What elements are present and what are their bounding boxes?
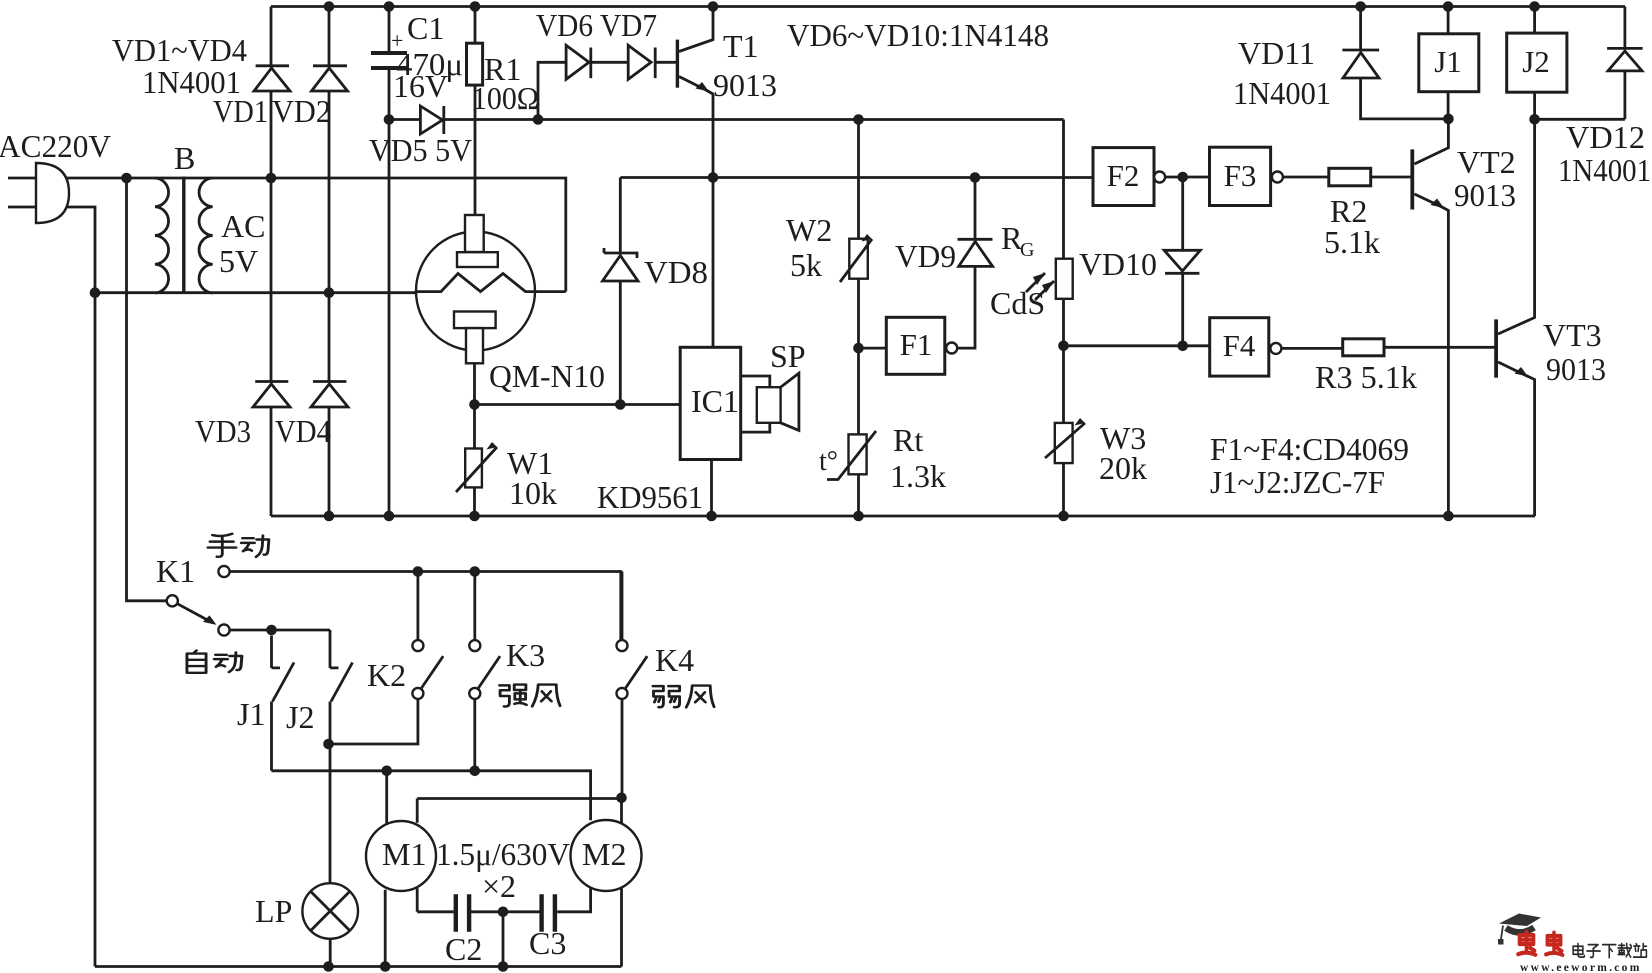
svg-text:J1: J1 <box>237 696 265 732</box>
svg-text:AC220V: AC220V <box>0 128 111 164</box>
svg-text:×2: ×2 <box>482 868 516 904</box>
svg-text:K1: K1 <box>156 553 195 589</box>
svg-text:C2: C2 <box>445 931 482 967</box>
svg-text:9013: 9013 <box>713 67 777 103</box>
svg-text:VD5 5V: VD5 5V <box>369 132 472 168</box>
svg-text:VD9: VD9 <box>895 238 956 274</box>
svg-text:VD6~VD10:1N4148: VD6~VD10:1N4148 <box>787 17 1049 53</box>
svg-text:J2: J2 <box>286 699 314 735</box>
svg-text:J1~J2:JZC-7F: J1~J2:JZC-7F <box>1210 464 1385 500</box>
svg-text:VD1~VD4: VD1~VD4 <box>112 32 247 68</box>
svg-text:www.eeworm.com: www.eeworm.com <box>1520 962 1642 973</box>
svg-text:F1: F1 <box>900 327 933 362</box>
svg-text:C1: C1 <box>407 10 444 46</box>
svg-text:5V: 5V <box>219 243 258 279</box>
svg-text:K3: K3 <box>506 637 545 673</box>
svg-text:F3: F3 <box>1224 158 1257 193</box>
svg-text:t°: t° <box>819 446 838 477</box>
svg-text:M1: M1 <box>382 836 426 872</box>
svg-text:VD11: VD11 <box>1238 35 1315 71</box>
svg-text:5k: 5k <box>790 247 822 283</box>
svg-text:G: G <box>1020 239 1034 261</box>
svg-text:SP: SP <box>770 338 806 374</box>
svg-text:J1: J1 <box>1434 44 1462 79</box>
svg-text:VD2: VD2 <box>272 93 331 129</box>
svg-text:J2: J2 <box>1522 44 1550 79</box>
svg-text:R3 5.1k: R3 5.1k <box>1315 359 1417 395</box>
svg-text:K2: K2 <box>367 657 406 693</box>
svg-text:VT2: VT2 <box>1457 144 1516 180</box>
svg-text:Rt: Rt <box>893 422 923 458</box>
svg-text:KD9561: KD9561 <box>597 479 703 515</box>
svg-text:VD4: VD4 <box>275 413 331 449</box>
svg-text:IC1: IC1 <box>691 383 739 419</box>
svg-text:16V: 16V <box>393 68 448 104</box>
svg-text:VD6: VD6 <box>536 7 593 43</box>
svg-text:100Ω: 100Ω <box>472 80 539 116</box>
svg-text:F4: F4 <box>1223 328 1256 363</box>
svg-text:1.5μ/630V: 1.5μ/630V <box>436 836 570 872</box>
svg-text:F2: F2 <box>1107 158 1140 193</box>
svg-text:1N4001: 1N4001 <box>1558 152 1651 188</box>
svg-text:VT3: VT3 <box>1543 317 1602 353</box>
svg-text:VD12: VD12 <box>1566 119 1645 155</box>
svg-text:QM-N10: QM-N10 <box>489 358 605 394</box>
svg-text:20k: 20k <box>1099 450 1147 486</box>
svg-text:AC: AC <box>221 208 265 244</box>
svg-text:VD1: VD1 <box>213 93 268 129</box>
svg-text:B: B <box>174 140 195 176</box>
svg-text:1N4001: 1N4001 <box>1233 75 1331 111</box>
svg-text:CdS: CdS <box>990 285 1045 321</box>
svg-text:9013: 9013 <box>1454 177 1516 213</box>
svg-text:9013: 9013 <box>1546 351 1606 387</box>
svg-text:F1~F4:CD4069: F1~F4:CD4069 <box>1210 431 1409 467</box>
svg-text:M2: M2 <box>582 836 626 872</box>
svg-text:T1: T1 <box>723 28 759 64</box>
svg-text:C3: C3 <box>529 925 566 961</box>
svg-text:VD10: VD10 <box>1079 246 1157 282</box>
svg-text:W2: W2 <box>786 212 832 248</box>
svg-text:K4: K4 <box>655 642 694 678</box>
svg-text:VD8: VD8 <box>644 254 708 290</box>
svg-text:1.3k: 1.3k <box>890 458 946 494</box>
svg-text:10k: 10k <box>509 475 557 511</box>
svg-text:LP: LP <box>255 893 292 929</box>
svg-text:5.1k: 5.1k <box>1324 224 1380 260</box>
svg-text:VD3: VD3 <box>195 413 251 449</box>
svg-text:VD7: VD7 <box>600 7 657 43</box>
